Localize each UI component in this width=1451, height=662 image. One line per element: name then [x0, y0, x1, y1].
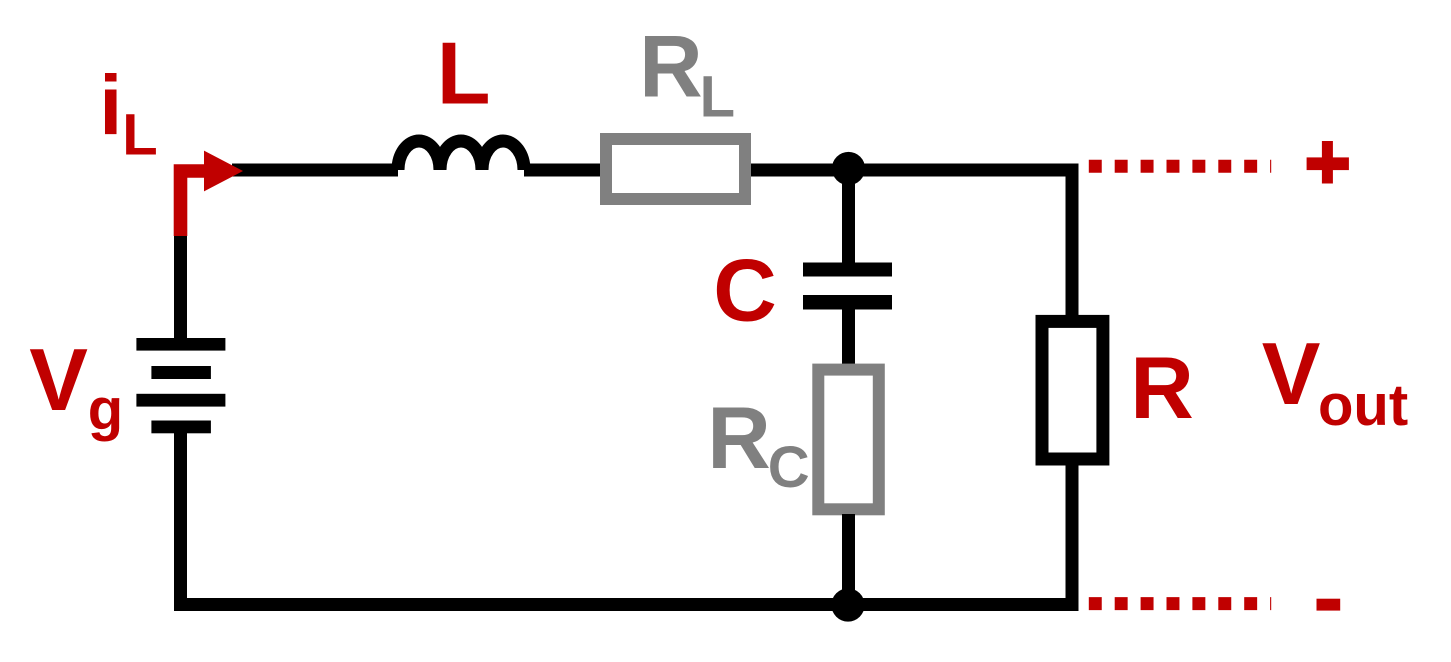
svg-text:L: L	[122, 102, 157, 167]
svg-text:L: L	[437, 24, 491, 123]
svg-text:out: out	[1318, 373, 1408, 438]
svg-text:V: V	[29, 330, 88, 429]
svg-text:i: i	[99, 59, 122, 153]
svg-text:C: C	[768, 435, 810, 500]
svg-text:R: R	[639, 17, 703, 116]
svg-text:g: g	[88, 377, 123, 442]
svg-text:V: V	[1262, 324, 1321, 423]
svg-text:R: R	[707, 388, 771, 487]
svg-text:R: R	[1130, 338, 1194, 437]
svg-text:C: C	[713, 241, 777, 340]
svg-text:L: L	[700, 65, 735, 130]
